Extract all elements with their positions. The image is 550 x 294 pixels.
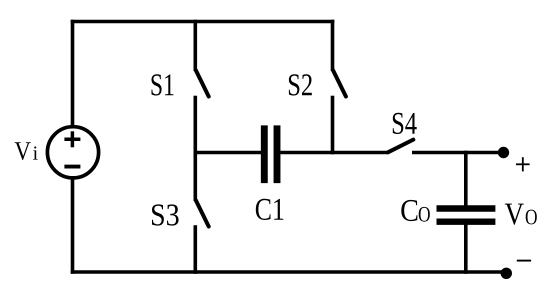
label Vo — [505, 204, 537, 225]
label Co — [401, 200, 430, 222]
switch S3 blade — [196, 200, 209, 227]
wire: left vertical (source top to top rail) — [71, 20, 75, 127]
switch S2 upper stub — [331, 20, 335, 71]
wire: top rail — [71, 20, 335, 24]
node: plus output terminal dot — [498, 147, 509, 158]
switch S1 upper stub — [194, 20, 198, 71]
label minus polarity — [517, 260, 531, 262]
wire: bottom rail — [71, 270, 506, 274]
switch S4 blade — [388, 140, 413, 153]
capacitor C1 left plate — [261, 125, 268, 183]
wire: output branch vertical lower (Co to bottom rail) — [464, 224, 468, 274]
voltage source U (Vi) circle — [47, 127, 98, 178]
wire: left vertical (source bottom to bottom rail) — [71, 178, 75, 274]
label Vi — [15, 142, 38, 160]
wire: output branch vertical upper (node to Co) — [464, 151, 468, 207]
label S2 — [289, 74, 312, 95]
switch S2 blade — [333, 70, 346, 97]
capacitor Co top plate — [437, 205, 496, 211]
wire: output rail (S4 to plus terminal) — [412, 151, 504, 155]
label S1 — [152, 74, 174, 95]
wire: middle rail right (C1 to S4) — [280, 151, 387, 155]
label plus polarity — [516, 157, 530, 171]
label S4 — [393, 113, 417, 134]
label C1 — [256, 199, 283, 220]
capacitor Co bottom plate — [437, 219, 496, 225]
switch S3 upper stub — [194, 151, 198, 201]
wire: middle rail left (S1 node to C1) — [194, 151, 262, 155]
node: minus output terminal dot — [501, 268, 512, 279]
switch S3 lower stub — [194, 225, 198, 274]
label S3 — [152, 204, 179, 225]
switch S1 blade — [196, 70, 209, 97]
voltage source plus mark — [64, 131, 80, 147]
switch S2 lower stub — [331, 96, 335, 155]
capacitor C1 right plate — [274, 125, 281, 183]
voltage source minus mark — [64, 165, 80, 169]
switch S1 lower stub — [194, 96, 198, 155]
